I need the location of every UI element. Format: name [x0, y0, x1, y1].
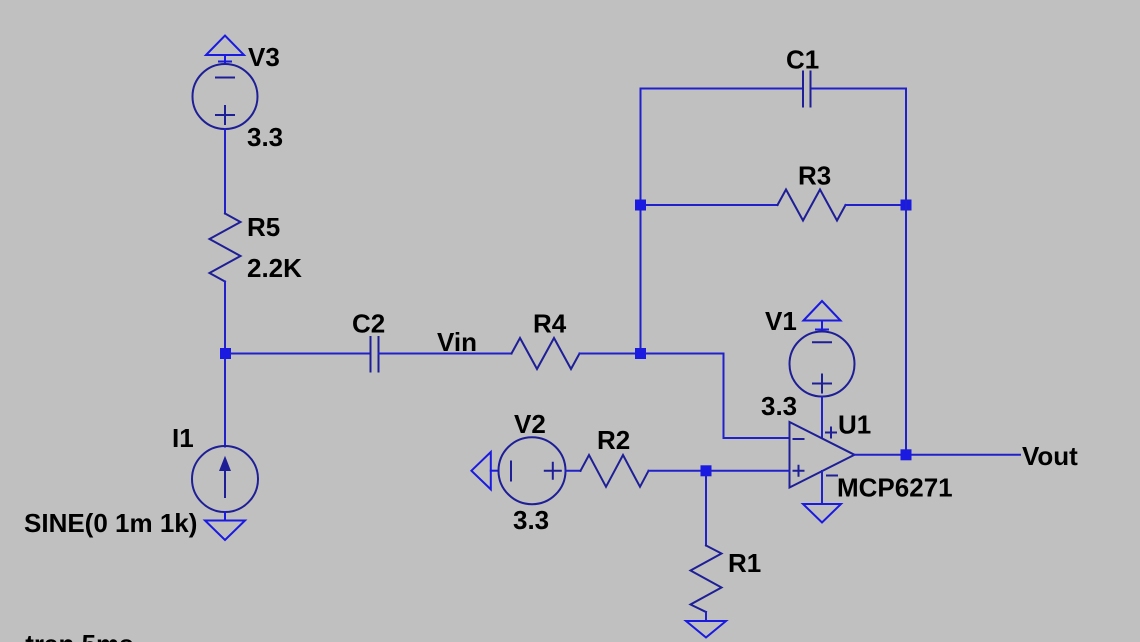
resistor R2 [581, 455, 649, 487]
svg-text:R5: R5 [247, 212, 280, 242]
op-amp U1 [790, 422, 855, 488]
junction output [901, 449, 912, 460]
ground below I1 [205, 512, 245, 540]
wire C2 to R4 [379, 353, 512, 355]
capacitor C1 [803, 72, 811, 107]
svg-text:Vout: Vout [1022, 441, 1078, 471]
svg-text:3.3: 3.3 [761, 391, 797, 421]
wire junction to opamp minus input [646, 354, 790, 439]
feedback left vertical wire [640, 89, 642, 349]
svg-text:.tran 5ms: .tran 5ms [18, 629, 134, 642]
svg-text:3.3: 3.3 [513, 505, 549, 535]
voltage source V2 [499, 437, 566, 504]
ground below op-amp [803, 504, 841, 523]
svg-text:MCP6271: MCP6271 [837, 473, 953, 503]
power flag V1 top [804, 301, 841, 330]
svg-text:R2: R2 [597, 425, 630, 455]
junction node mid [635, 348, 646, 359]
svg-text:U1: U1 [838, 410, 871, 440]
wire junction to R3 [646, 204, 778, 206]
voltage source V1 [790, 332, 855, 397]
junction plus input node [701, 465, 712, 476]
output wire to Vout [855, 454, 1021, 456]
wire V2 to R2 [566, 470, 581, 472]
svg-text:SINE(0 1m 1k): SINE(0 1m 1k) [24, 508, 197, 538]
resistor R4 [512, 338, 580, 369]
wire node to I1 [224, 359, 226, 447]
wire junction down to R1 [705, 476, 707, 545]
junction node left [220, 348, 231, 359]
wire R1 to ground [705, 612, 707, 621]
wire V1 to opamp V+ pin [821, 397, 823, 438]
wire R5 to node [224, 282, 226, 354]
current source I1 [192, 446, 258, 512]
wire R3 to right junction [846, 204, 907, 206]
svg-text:2.2K: 2.2K [247, 253, 302, 283]
ground flag left of V2 [471, 452, 498, 489]
svg-text:V1: V1 [765, 306, 797, 336]
wire R4 to junction [580, 353, 641, 355]
svg-text:R1: R1 [728, 548, 761, 578]
wire junction to opamp plus input [712, 470, 790, 472]
junction feedback left [635, 200, 646, 211]
right vertical feedback wire [905, 89, 907, 455]
feedback top wire [641, 88, 907, 90]
resistor R1 [691, 546, 722, 613]
wire node to C2 [231, 353, 371, 355]
svg-text:V3: V3 [248, 42, 280, 72]
ground below R1 [686, 621, 726, 638]
svg-text:I1: I1 [172, 423, 194, 453]
svg-text:C1: C1 [786, 45, 819, 75]
svg-text:Vin: Vin [437, 327, 477, 357]
voltage source V3 [193, 64, 258, 129]
capacitor C2 [371, 337, 379, 372]
resistor R3 [778, 190, 846, 221]
wire V3 to R5 [224, 129, 226, 214]
wire opamp V- pin to ground [821, 471, 823, 504]
junction feedback right [901, 200, 912, 211]
svg-text:R3: R3 [798, 161, 831, 191]
svg-text:R4: R4 [533, 309, 567, 339]
resistor R5 [210, 214, 241, 282]
wire R2 to junction [649, 470, 701, 472]
power flag V3 top [206, 36, 244, 65]
svg-text:C2: C2 [352, 309, 385, 339]
svg-text:V2: V2 [514, 409, 546, 439]
svg-text:3.3: 3.3 [247, 122, 283, 152]
